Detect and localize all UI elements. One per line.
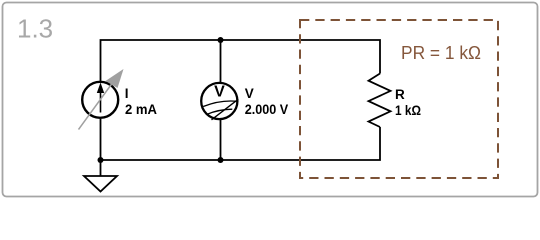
label I value — [125, 86, 157, 117]
node junction bottom left — [98, 157, 104, 163]
svg-text:2 mA: 2 mA — [125, 102, 157, 117]
resistor R — [369, 74, 391, 128]
probe box (dashed region around R) — [300, 20, 498, 178]
ground — [84, 160, 117, 192]
label V value — [245, 86, 289, 117]
svg-text:PR = 1 kΩ: PR = 1 kΩ — [401, 43, 481, 63]
wire bottom (ground net) — [101, 119, 381, 160]
label R value — [395, 87, 421, 118]
voltmeter V — [201, 83, 238, 120]
current source I — [79, 69, 124, 130]
svg-text:R: R — [395, 87, 405, 102]
svg-text:2.000 V: 2.000 V — [245, 102, 289, 117]
node junction bottom middle — [218, 157, 224, 163]
wire voltmeter bottom branch — [220, 119, 222, 161]
node junction top — [218, 37, 224, 43]
svg-text:V: V — [245, 86, 254, 101]
svg-text:I: I — [125, 86, 129, 101]
wire voltmeter top branch — [220, 40, 222, 84]
svg-text:1 kΩ: 1 kΩ — [395, 103, 421, 118]
svg-text:V: V — [214, 84, 225, 101]
svg-text:1.3: 1.3 — [17, 14, 53, 44]
wire top (node between I, V and R) — [101, 40, 381, 83]
